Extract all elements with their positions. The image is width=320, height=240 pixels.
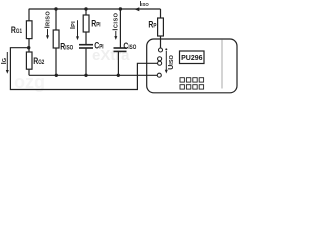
svg-text:PU296: PU296 [181,55,203,62]
svg-text:IG: IG [1,58,8,64]
svg-text:IISO: IISO [140,1,150,8]
svg-text:IPI: IPI [70,21,77,29]
svg-text:IRISO: IRISO [45,11,52,29]
svg-text:ICISO: ICISO [113,12,120,30]
svg-text:UISO: UISO [168,54,175,69]
